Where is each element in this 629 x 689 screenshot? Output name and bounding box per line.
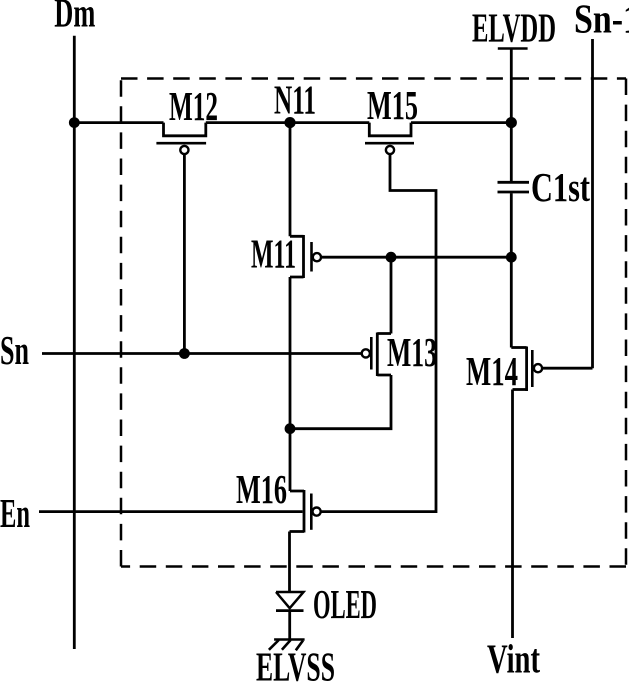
wire M12 gate to Sn — [183, 154, 186, 353]
wire ELVDD to M14 — [510, 193, 513, 347]
transistor M14 gate bar — [531, 350, 534, 387]
transistor M15 gate bar — [365, 142, 414, 145]
wire M15 gate down and over — [321, 154, 436, 511]
node dot N11 — [284, 117, 295, 128]
svg-text:M14: M14 — [466, 348, 518, 394]
transistor M16 channel — [290, 490, 305, 533]
svg-text:M11: M11 — [251, 231, 296, 277]
wire M14 to Vint — [511, 390, 514, 639]
wire M14 gate to Sn-1 — [542, 367, 592, 370]
node dot M11 gate / M13 — [386, 252, 397, 263]
svg-text:En: En — [0, 490, 30, 536]
transistor M12 channel — [164, 123, 206, 136]
wire M15 to ELVDD node — [411, 121, 511, 124]
wire Sn-1 vertical scan line — [591, 39, 594, 368]
svg-text:Dm: Dm — [54, 0, 95, 36]
svg-text:Sn-1: Sn-1 — [574, 0, 629, 42]
svg-text:N11: N11 — [274, 77, 316, 123]
transistor M15 bubble — [386, 146, 394, 154]
transistor M14 channel bar — [525, 347, 528, 392]
wire M13 drain branch down — [390, 257, 393, 333]
svg-text:M15: M15 — [367, 82, 418, 128]
svg-text:ELVDD: ELVDD — [472, 5, 556, 51]
capacitor C1st top plate — [498, 181, 530, 184]
svg-text:Vint: Vint — [487, 636, 540, 682]
node dot ELVDD — [506, 117, 517, 128]
svg-text:OLED: OLED — [313, 581, 377, 627]
transistor M12 bubble — [180, 146, 188, 154]
transistor M11 channel — [290, 235, 304, 278]
ground ELVSS symbol — [274, 638, 305, 641]
svg-text:M13: M13 — [387, 329, 437, 375]
transistor M16 bubble — [313, 508, 321, 516]
wire Dm vertical data line — [73, 36, 76, 649]
wire top row y=122.6 — [74, 121, 163, 124]
transistor M14 top step — [511, 346, 526, 349]
wire M13 source down and left to N11 line — [290, 375, 391, 429]
transistor M14 bottom step — [513, 388, 527, 391]
transistor M11 gate bar — [310, 242, 313, 272]
transistor M16 gate bar — [310, 494, 313, 530]
wire N11 to M15 — [290, 121, 369, 124]
transistor M15 channel — [369, 123, 411, 136]
svg-text:Sn: Sn — [0, 327, 29, 373]
wire M11 drain down to node — [289, 277, 292, 491]
dashed pixel boundary box — [121, 77, 626, 80]
capacitor C1st bottom plate — [498, 191, 530, 194]
node dot Sn/M12 gate — [179, 348, 190, 359]
wire M12 to N11 — [206, 121, 290, 124]
wire ELVDD vertical — [510, 50, 513, 182]
ELVDD terminal bar — [498, 47, 528, 49]
node dot N11 lower — [285, 423, 296, 434]
wire M16 source to OLED — [288, 532, 291, 593]
svg-text:M12: M12 — [169, 83, 218, 129]
node dot cap bottom — [506, 252, 517, 263]
svg-text:ELVSS: ELVSS — [256, 644, 335, 685]
svg-text:C1st: C1st — [531, 164, 590, 210]
wire Sn row — [42, 352, 362, 355]
transistor M13 gate bar — [370, 337, 373, 370]
transistor M12 gate bar — [156, 142, 206, 145]
transistor M13 channel — [377, 333, 391, 377]
wire En row — [39, 510, 303, 513]
transistor M13 bubble — [362, 349, 370, 357]
diode OLED — [276, 592, 304, 608]
wire M11 gate to cap node — [321, 256, 511, 259]
svg-text:M16: M16 — [236, 466, 287, 512]
transistor M14 bubble — [534, 364, 542, 372]
transistor M11 bubble — [313, 253, 321, 261]
node dot Dm/top row — [69, 117, 80, 128]
wire OLED to ground — [288, 611, 291, 639]
wire N11 vertical to M11 — [289, 123, 292, 237]
